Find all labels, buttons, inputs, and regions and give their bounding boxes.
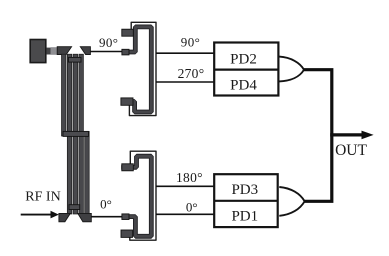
resistor bar (light gray)	[51, 47, 58, 55]
svg-text:90°: 90°	[181, 34, 200, 49]
bottom hybrid: thick microstrip path (gray core)	[121, 156, 151, 236]
wire: bottom hybrid to PD1	[156, 213, 214, 215]
wire: Lange 0-deg output to bottom hybrid	[91, 216, 123, 218]
load connector stub	[46, 48, 50, 55]
RF IN arrow	[21, 211, 59, 219]
OUT arrow	[330, 133, 363, 136]
top hybrid: coupled thin line	[129, 22, 156, 115]
top hybrid: open tab B	[121, 98, 133, 105]
Lange coupler: top-left elbow	[57, 47, 71, 55]
Lange coupler: bottom tie bar	[69, 205, 80, 210]
PD3/PD1 box	[214, 174, 278, 227]
svg-text:OUT: OUT	[335, 142, 367, 159]
Lange coupler: lower fingers	[67, 131, 89, 214]
top hybrid: thick microstrip path (dark edge)	[121, 27, 151, 112]
wire: Lange 90-deg output to top hybrid	[90, 51, 123, 53]
Lange coupler: top-right elbow	[80, 47, 90, 55]
Lange coupler: bottom-right miter (0-deg bend)	[78, 213, 92, 221]
bottom hybrid: input tab	[122, 214, 129, 220]
svg-text:RF IN: RF IN	[25, 190, 60, 205]
svg-text:PD2: PD2	[230, 51, 257, 67]
Lange coupler: middle tie bar (crossover)	[63, 131, 89, 136]
wire: top hybrid to PD2	[156, 52, 214, 54]
top combiner	[279, 57, 304, 82]
OUT bus wire	[304, 70, 332, 202]
svg-text:PD3: PD3	[231, 182, 258, 198]
svg-text:90°: 90°	[99, 35, 118, 50]
wire: bottom hybrid to PD3	[156, 185, 214, 187]
svg-text:0°: 0°	[186, 199, 198, 214]
svg-text:0°: 0°	[100, 197, 112, 212]
svg-text:PD1: PD1	[231, 209, 258, 225]
svg-text:270°: 270°	[178, 66, 205, 81]
top hybrid: input tab	[122, 49, 129, 55]
PD2/PD4 box	[214, 43, 278, 96]
bottom hybrid: open tab A2	[122, 164, 134, 171]
Lange coupler: upper fingers	[62, 54, 84, 136]
top hybrid: open tab A	[122, 29, 134, 36]
bottom combiner	[279, 187, 304, 216]
wire: top hybrid to PD4	[156, 81, 214, 83]
bottom hybrid: coupled thin line	[130, 151, 156, 240]
bottom hybrid: thick microstrip path (dark edge)	[121, 156, 151, 236]
Lange coupler: top tie bar	[69, 57, 82, 62]
svg-text:180°: 180°	[176, 170, 203, 185]
svg-text:PD4: PD4	[230, 77, 257, 93]
load termination (black square)	[30, 40, 46, 63]
bottom hybrid: open tab B2	[121, 230, 133, 237]
Lange coupler: bottom-left miter (RF IN bend)	[59, 213, 70, 221]
top hybrid: thick microstrip path (gray core)	[121, 27, 151, 112]
